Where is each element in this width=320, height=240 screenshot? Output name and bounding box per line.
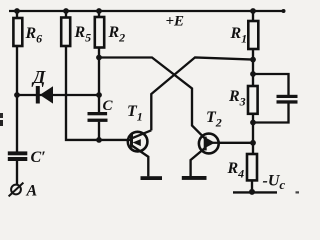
transistor T2 base bar xyxy=(204,137,207,151)
resistor R6 xyxy=(13,18,22,46)
node dot R4 output xyxy=(249,189,255,195)
resistor R2 xyxy=(95,17,104,48)
diode D cathode bar xyxy=(36,86,40,104)
node dot left rail diode xyxy=(14,92,20,98)
transistor T2 circle xyxy=(199,134,219,154)
diode D triangle xyxy=(40,86,53,103)
wire R4 bottom to output xyxy=(251,180,253,192)
node dot diode capacitor C xyxy=(96,92,102,98)
transistor T1 collector line xyxy=(132,130,152,138)
node dot R3 top xyxy=(250,71,256,77)
terminal A slash xyxy=(9,183,24,197)
transistor T1 base bar xyxy=(130,134,133,147)
node dot top rail R6 xyxy=(14,8,20,14)
node dot top rail R2 xyxy=(96,8,102,14)
transistor T2 emitter arrow xyxy=(206,138,215,148)
wire R1 node to T1 collector (cross-coupling B) xyxy=(151,57,253,130)
scan artifact right edge xyxy=(296,191,300,193)
node dot capacitor C T1 base xyxy=(96,137,102,143)
wire -Uc output line xyxy=(233,191,277,193)
node dot R2 cross-coupling xyxy=(96,55,102,61)
wire T2 collector to R4 node xyxy=(218,142,253,144)
wire R3 parallel capacitor branch bottom xyxy=(253,103,289,122)
node dot R1 cross-coupling xyxy=(250,57,256,63)
capacitor parallel to R3 top plate xyxy=(277,95,298,98)
node dot top rail R1 xyxy=(250,8,256,14)
node dot top rail right end xyxy=(282,9,286,13)
svg-text:C: C xyxy=(103,98,114,114)
wire R5 column down and T1 base xyxy=(66,11,132,140)
svg-text:Д: Д xyxy=(31,67,46,87)
resistor R4 xyxy=(247,154,257,180)
node dot T2 collector R4 xyxy=(250,140,256,146)
wire R2 column down to capacitor C xyxy=(98,11,100,112)
capacitor C' top plate xyxy=(8,151,28,155)
transistor T1 emitter arrow xyxy=(133,139,141,146)
wire diode branch xyxy=(17,94,99,96)
scan artifact left edge xyxy=(0,113,3,118)
wire R1 bottom to R3 top xyxy=(252,49,254,86)
wire left rail upper (R6 column) xyxy=(16,11,18,152)
resistor R1 xyxy=(248,21,258,49)
node dot R3 bottom xyxy=(250,120,256,126)
ground under T2 xyxy=(182,176,207,180)
wire capacitor C to T1 base node xyxy=(98,122,100,140)
node dot top rail R5 xyxy=(63,8,69,14)
wire R3 parallel capacitor branch top xyxy=(253,74,289,95)
transistor T1 circle xyxy=(128,132,148,152)
wire C' to terminal A xyxy=(16,161,18,185)
svg-text:+E: +E xyxy=(166,14,185,30)
transistor T2 collector line inside circle xyxy=(208,142,219,144)
wire T2 emitter to ground xyxy=(191,148,206,177)
wire R3 bottom to R4 top xyxy=(252,114,254,154)
svg-text:C′: C′ xyxy=(31,149,46,166)
terminal A circle xyxy=(11,185,21,195)
wire R1 column xyxy=(252,11,254,21)
capacitor parallel to R3 bottom plate xyxy=(277,100,298,103)
wire T1 emitter to ground xyxy=(132,146,148,177)
capacitor C' bottom plate xyxy=(8,157,28,161)
ground under T1 xyxy=(141,176,163,180)
resistor R5 xyxy=(61,18,70,47)
wire +E top rail xyxy=(9,10,285,12)
wire R2 node to T2 base (cross-coupling A) xyxy=(99,58,205,139)
capacitor C top plate xyxy=(88,112,108,115)
resistor R3 xyxy=(248,86,258,114)
capacitor C bottom plate xyxy=(88,119,108,122)
svg-text:A: A xyxy=(26,183,38,200)
